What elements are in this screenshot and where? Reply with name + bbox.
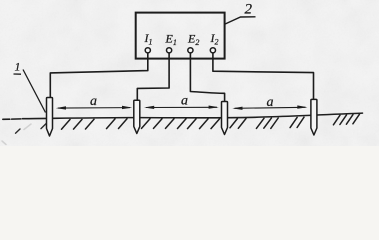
- terminal I2: [210, 48, 215, 53]
- label 1 with leader: [14, 60, 46, 113]
- wire E2 (terminal E2 down, right, down to electrode 3): [190, 53, 224, 102]
- dimension a (right span): [232, 105, 307, 110]
- label 2 with leader: [225, 2, 256, 25]
- svg-text:a: a: [90, 94, 97, 109]
- electrode 4 (right current stake): [311, 99, 317, 135]
- electrode 2 (left potential stake): [134, 100, 140, 133]
- ground hatching: [62, 114, 360, 129]
- svg-text:a: a: [267, 95, 274, 110]
- dimension a (middle span): [144, 106, 219, 110]
- svg-text:1: 1: [15, 60, 21, 74]
- wire I1 (box terminal I1 down, left, down to electrode 1): [50, 53, 148, 99]
- paper texture: [0, 0, 379, 146]
- svg-text:2: 2: [245, 2, 253, 18]
- electrode 3 (right potential stake): [222, 102, 228, 135]
- terminal E1: [167, 48, 172, 53]
- wire I2 (terminal I2 down, right, down to electrode 4): [213, 53, 314, 100]
- dimension a (left span): [56, 106, 132, 110]
- terminal E2: [188, 48, 193, 53]
- electrode 1 (left current stake): [47, 98, 53, 137]
- hatch at electrode 1: [41, 122, 48, 129]
- stray hatch mark: [16, 129, 21, 133]
- wire E1 (terminal E1 down, left, down to electrode 2): [137, 53, 169, 101]
- ground line: [3, 113, 363, 119]
- instrument box U (meter): [136, 13, 225, 59]
- corner smudge bottom-left: [2, 124, 31, 145]
- svg-text:a: a: [181, 94, 188, 109]
- terminal I1: [145, 48, 150, 53]
